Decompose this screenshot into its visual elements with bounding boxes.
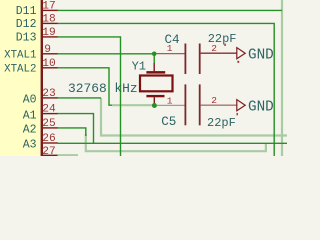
svg-text:22pF: 22pF: [208, 32, 237, 46]
svg-text:24: 24: [42, 104, 56, 116]
svg-text:Y1: Y1: [132, 59, 146, 73]
svg-text:A1: A1: [23, 109, 37, 122]
svg-text:22pF: 22pF: [207, 116, 236, 130]
svg-text:A0: A0: [23, 94, 37, 107]
svg-text:XTAL1: XTAL1: [4, 50, 36, 62]
svg-text:XTAL2: XTAL2: [4, 64, 36, 76]
svg-text:1: 1: [167, 95, 173, 106]
svg-text:D13: D13: [16, 32, 37, 45]
svg-text:19: 19: [42, 27, 55, 39]
svg-text:D11: D11: [16, 5, 37, 18]
svg-text:23: 23: [42, 88, 55, 100]
svg-text:C5: C5: [161, 115, 176, 129]
svg-text:C4: C4: [165, 33, 180, 47]
svg-text:32768 kHz: 32768 kHz: [68, 81, 138, 96]
svg-text:A2: A2: [23, 124, 37, 137]
svg-text:10: 10: [42, 58, 56, 70]
svg-text:27: 27: [42, 146, 55, 156]
svg-text:2: 2: [211, 95, 217, 106]
svg-text:26: 26: [42, 133, 55, 145]
svg-text:D12: D12: [16, 18, 37, 31]
svg-text:GND: GND: [248, 48, 274, 64]
svg-text:25: 25: [42, 118, 55, 130]
svg-text:17: 17: [42, 0, 55, 12]
svg-text:GND: GND: [248, 100, 274, 116]
svg-text:A3: A3: [23, 139, 37, 152]
svg-text:18: 18: [42, 13, 55, 25]
svg-text:9: 9: [44, 44, 51, 56]
